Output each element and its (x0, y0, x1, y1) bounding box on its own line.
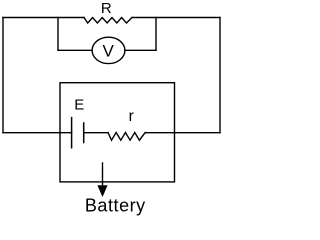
battery arrow shaft (102, 163, 104, 186)
svg-text:V: V (103, 42, 115, 61)
battery box (60, 83, 175, 182)
wire outer left vertical (2, 18, 4, 133)
wire top-left segment (3, 17, 84, 19)
resistor r zigzag (108, 133, 145, 141)
svg-text:r: r (129, 108, 134, 125)
wire bottom-right from box to outer loop (145, 132, 220, 134)
voltmeter branch right vertical wire (155, 18, 157, 51)
voltmeter V ellipse (92, 37, 125, 63)
wire battery to r (84, 132, 108, 134)
svg-text:E: E (74, 97, 84, 114)
voltmeter branch left vertical wire (57, 18, 59, 51)
voltmeter branch left horizontal wire (58, 49, 92, 51)
voltmeter branch right horizontal wire (125, 49, 156, 51)
battery arrow head (97, 185, 107, 197)
wire top-right segment (132, 17, 220, 19)
wire outer right vertical (219, 18, 221, 133)
svg-text:R: R (101, 0, 112, 17)
svg-text:Battery: Battery (85, 195, 146, 215)
battery cell long plate (71, 118, 73, 148)
battery cell short plate (83, 123, 85, 143)
wire bottom-left to battery plate (3, 132, 72, 134)
resistor R1 zigzag (84, 18, 132, 24)
